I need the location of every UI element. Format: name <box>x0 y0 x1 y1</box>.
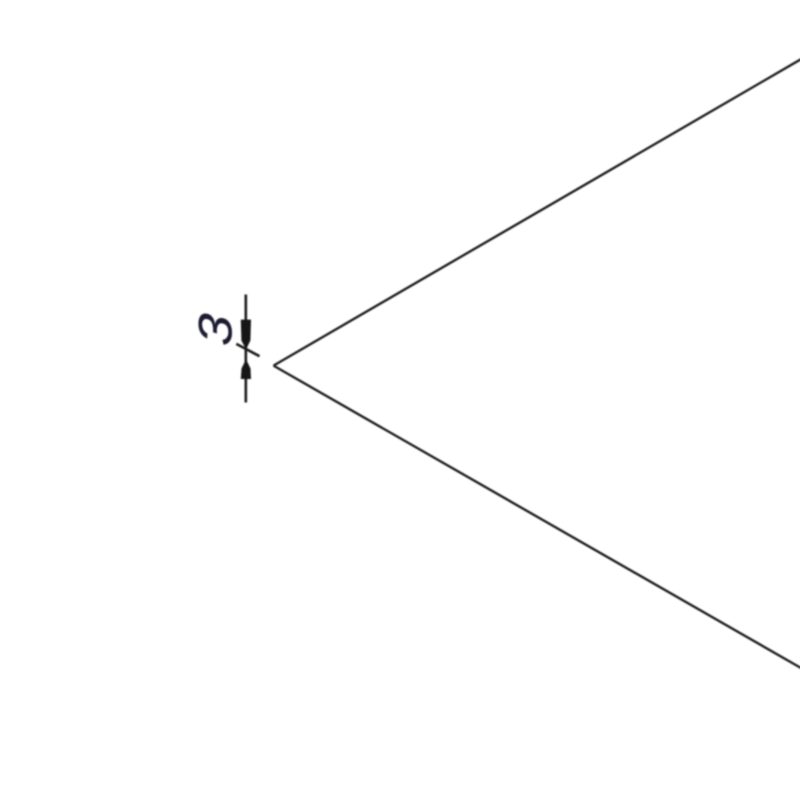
wire vertical dimension line <box>245 295 248 403</box>
wire upper edge line of V profile <box>274 59 800 365</box>
node upper dimension arrowhead <box>241 320 251 350</box>
svg-text:3: 3 <box>188 311 241 349</box>
wire oblique extension tick <box>236 344 259 356</box>
node lower dimension arrowhead <box>241 359 251 379</box>
wire lower edge line of V profile <box>274 366 800 668</box>
